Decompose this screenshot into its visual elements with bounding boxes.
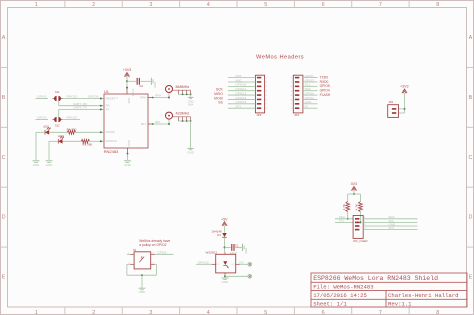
ground SMA1 — [188, 96, 193, 98]
svg-text:LED1: LED1 — [43, 126, 50, 129]
3V3 power at I2C — [351, 186, 356, 190]
svg-text:GND: GND — [33, 163, 41, 167]
wire antenna1 drop — [168, 93, 170, 98]
svg-text:GND: GND — [46, 163, 54, 167]
ground LED1 — [33, 160, 40, 162]
svg-text:GPIO13: GPIO13 — [66, 95, 77, 99]
wire R4 to GPIO0 — [76, 131, 104, 133]
wire 3V3 to JP4 — [404, 93, 406, 113]
wire 3V3 to pullups — [353, 190, 355, 194]
svg-text:ESP8266 WeMos Lora RN2483 Shie: ESP8266 WeMos Lora RN2483 Shield — [313, 275, 438, 282]
solder jumper SJ1 — [54, 96, 57, 101]
svg-text:5V: 5V — [305, 105, 309, 109]
svg-text:5: 5 — [264, 310, 267, 315]
svg-text:a pullup on GPIO2: a pullup on GPIO2 — [139, 243, 166, 247]
wire LED1 cathode to GND — [36, 131, 45, 133]
wire WS2812 GND — [224, 275, 226, 278]
JP2 wires and net labels — [228, 77, 256, 79]
wire LED1 to R4 — [49, 131, 67, 133]
wire to C1 — [225, 246, 231, 248]
svg-text:A: A — [2, 35, 6, 41]
svg-text:RN2483: RN2483 — [104, 149, 119, 154]
+3V3 power symbol — [124, 73, 129, 77]
svg-text:7: 7 — [379, 310, 382, 315]
ground LED2 — [46, 160, 53, 162]
wire R3 to GPIO10 — [90, 140, 104, 142]
svg-text:GND: GND — [244, 248, 248, 254]
net SDA — [335, 218, 353, 220]
svg-text:8: 8 — [436, 2, 439, 8]
header JP4 — [388, 105, 399, 118]
svg-text:Sheet: 1/1: Sheet: 1/1 — [313, 301, 347, 308]
wire +5V to D1 — [224, 226, 226, 233]
svg-text:RFL: RFL — [155, 120, 161, 124]
antenna 433MHz connector — [166, 112, 173, 119]
svg-text:4.7K: 4.7K — [355, 204, 359, 210]
ground SMA2 — [188, 147, 194, 149]
svg-text:Rev:1.1: Rev:1.1 — [388, 301, 412, 308]
svg-text:WeMos Headers: WeMos Headers — [256, 54, 304, 60]
svg-text:D1: D1 — [217, 233, 221, 237]
net GPIO1 stub — [36, 98, 49, 100]
svg-text:GPIO2: GPIO2 — [157, 251, 167, 255]
svg-text:GPIO15: GPIO15 — [66, 116, 77, 120]
antenna 868MHz connector — [166, 86, 173, 93]
svg-text:R4 390: R4 390 — [67, 127, 77, 131]
svg-text:I2C_OLED: I2C_OLED — [353, 239, 368, 243]
svg-text:GND: GND — [139, 290, 147, 294]
wire to C2 — [127, 80, 136, 82]
svg-text:TX: TX — [106, 107, 110, 111]
JP1 wires and net labels — [303, 77, 318, 79]
pushbutton S1 — [134, 252, 151, 269]
net DO — [240, 263, 248, 265]
svg-text:SCL: SCL — [339, 219, 345, 223]
svg-text:+3V3: +3V3 — [400, 85, 409, 89]
svg-text:B: B — [469, 95, 473, 101]
svg-text:6: 6 — [322, 2, 325, 8]
+5V power — [222, 222, 227, 226]
net RFH — [153, 97, 170, 99]
wire SJ2 to UART_TX — [58, 109, 60, 117]
resistor R1 4.7K — [346, 202, 350, 212]
svg-text:SJ2: SJ2 — [55, 123, 60, 127]
svg-text:1: 1 — [35, 2, 38, 8]
svg-text:UART_TX: UART_TX — [73, 106, 87, 110]
pad DOUT — [248, 262, 252, 266]
S1 pin1 stub — [127, 253, 130, 255]
svg-text:6: 6 — [322, 310, 325, 315]
net RFL — [153, 123, 170, 125]
svg-text:VDD: VDD — [127, 98, 131, 104]
svg-text:File: WeMos-RN2483: File: WeMos-RN2483 — [313, 284, 373, 291]
svg-text:DI: DI — [217, 264, 220, 266]
svg-text:2: 2 — [92, 2, 95, 8]
svg-text:4.7K: 4.7K — [342, 204, 346, 210]
ground right of C2 — [150, 78, 152, 85]
wire +3V3 to VDD — [126, 77, 128, 89]
capacitor C1 100nF — [231, 244, 233, 251]
svg-text:JP2: JP2 — [256, 113, 262, 117]
svg-text:D: D — [468, 215, 472, 221]
wire SJ1 to UART_RX — [58, 101, 60, 106]
svg-text:RFL: RFL — [141, 122, 147, 126]
svg-text:GPIO0: GPIO0 — [106, 130, 116, 134]
JP3 wires and net labels — [363, 218, 417, 220]
title block — [311, 273, 467, 307]
WS2812 pins — [212, 252, 240, 275]
svg-text:SJ1: SJ1 — [55, 90, 60, 94]
svg-text:E: E — [469, 275, 473, 281]
svg-text:100nF: 100nF — [131, 88, 135, 96]
svg-text:RESET**: RESET** — [106, 96, 119, 100]
svg-text:U1: U1 — [104, 90, 109, 94]
svg-text:17/05/2016 14:25: 17/05/2016 14:25 — [313, 292, 367, 299]
svg-text:SS: SS — [218, 101, 223, 105]
ground below U1 — [124, 160, 131, 162]
net GPIO15 stub — [62, 119, 80, 121]
svg-text:GPIO15: GPIO15 — [198, 261, 209, 265]
svg-text:3V3: 3V3 — [389, 226, 395, 230]
header JP3 I2C_OLED — [353, 216, 363, 239]
wire LED2 to R3 — [63, 140, 82, 142]
ground S1 — [139, 287, 146, 289]
svg-text:DO: DO — [232, 264, 236, 266]
svg-text:C: C — [2, 155, 6, 161]
S1 pins — [130, 254, 154, 264]
svg-text:+5V: +5V — [221, 217, 228, 221]
wire D1 to WS2812 — [224, 237, 226, 252]
wire R1 to SDA — [347, 212, 349, 219]
svg-text:C1: C1 — [235, 244, 239, 248]
svg-text:7: 7 — [379, 2, 382, 8]
svg-text:3: 3 — [149, 2, 152, 8]
header JP1 — [293, 75, 303, 113]
wire R2 to SCL — [359, 212, 361, 223]
svg-text:GPIO1: GPIO1 — [37, 95, 47, 99]
svg-text:3V3: 3V3 — [236, 105, 242, 109]
svg-text:GPIO3: GPIO3 — [37, 116, 47, 120]
svg-text:R3 390: R3 390 — [82, 143, 92, 147]
svg-text:RFH: RFH — [140, 96, 146, 100]
svg-text:+3V3: +3V3 — [123, 68, 132, 72]
wire C1 to GND — [235, 246, 242, 248]
svg-text:D: D — [2, 215, 6, 221]
svg-text:JP1: JP1 — [294, 113, 300, 117]
header JP2 — [256, 75, 265, 113]
svg-text:A: A — [469, 35, 473, 41]
svg-text:GND: GND — [222, 280, 230, 284]
svg-text:4: 4 — [207, 310, 210, 315]
svg-text:8: 8 — [436, 310, 439, 315]
resistor R4 390 — [67, 130, 76, 134]
frame row letters — [2, 35, 473, 281]
net GPIO13 stub — [62, 98, 104, 100]
U1 left pins — [100, 88, 153, 153]
pad GND — [248, 274, 252, 278]
svg-text:E: E — [2, 275, 6, 281]
svg-text:GND: GND — [187, 150, 195, 154]
svg-text:3V3: 3V3 — [351, 182, 357, 186]
ground right of C1 — [242, 244, 244, 251]
capacitor C2 100nF — [136, 78, 138, 85]
svg-text:GND: GND — [124, 163, 132, 167]
svg-text:WS2812: WS2812 — [206, 251, 218, 255]
LED1 — [45, 128, 50, 135]
wire antenna2 drop — [168, 119, 170, 124]
svg-text:B: B — [2, 95, 6, 101]
resistor R2 4.7K — [359, 202, 363, 212]
LED2 — [58, 137, 63, 144]
svg-text:GPIO16: GPIO16 — [88, 95, 99, 99]
svg-text:RFH: RFH — [155, 94, 161, 98]
ground WS2812 — [222, 277, 229, 279]
svg-text:Charles-Henri Hallard: Charles-Henri Hallard — [388, 292, 459, 299]
svg-text:JP4: JP4 — [388, 100, 393, 104]
net GPIO3 stub — [36, 119, 49, 121]
RN2483 module U1 — [104, 94, 148, 148]
net SCL — [335, 221, 353, 223]
svg-text:LED2: LED2 — [58, 135, 65, 138]
svg-text:GPIO10: GPIO10 — [106, 139, 117, 143]
wire U1 GND pin — [127, 153, 129, 160]
wire SMA2 shield to GND — [190, 121, 192, 148]
net GPIO13 to WS2812 DI — [196, 263, 212, 265]
WS2812 LED1 box — [216, 254, 236, 273]
svg-text:FLASH: FLASH — [320, 93, 331, 97]
wire C2 to GND — [140, 80, 150, 82]
svg-text:GND: GND — [153, 82, 157, 88]
svg-text:2: 2 — [92, 310, 95, 315]
svg-text:868MHz: 868MHz — [176, 85, 190, 89]
svg-text:3: 3 — [149, 310, 152, 315]
solder jumper SJ2 — [54, 117, 57, 122]
diode D1 1N4148 — [222, 233, 227, 237]
net GPIO2 from S1 — [155, 253, 174, 255]
svg-text:SMA: SMA — [188, 104, 194, 107]
wire SMA1 shield to GND — [190, 94, 192, 96]
svg-text:C: C — [468, 155, 472, 161]
svg-text:433MHz: 433MHz — [176, 112, 190, 116]
svg-text:S1: S1 — [133, 248, 137, 252]
wire S1 to GND loop — [127, 263, 130, 265]
svg-text:4: 4 — [207, 2, 210, 8]
svg-text:GND: GND — [127, 140, 131, 146]
wire LED2 cathode to GND — [49, 140, 58, 142]
+3V3 power at JP4 — [402, 89, 407, 93]
svg-text:DO: DO — [239, 261, 244, 265]
svg-text:5: 5 — [264, 2, 267, 8]
resistor R3 390 — [81, 139, 90, 143]
svg-text:1: 1 — [35, 310, 38, 315]
svg-text:C2: C2 — [139, 84, 143, 88]
